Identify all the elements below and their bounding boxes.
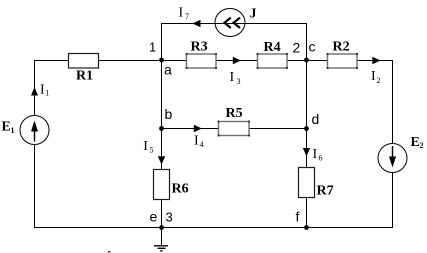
svg-text:R7: R7 (317, 184, 334, 199)
current arrow I3 (230, 57, 242, 86)
svg-text:I: I (143, 139, 148, 154)
current arrow I6 (303, 147, 323, 162)
resistor R2 (327, 40, 358, 69)
wire: vertical c-d-f (through R7) (306, 61, 308, 228)
svg-text:R5: R5 (226, 106, 243, 121)
wire: top branch a-J-c (162, 24, 307, 61)
svg-text:R1: R1 (76, 69, 93, 84)
node b junction (159, 106, 172, 131)
svg-text:1: 1 (149, 40, 156, 55)
resistor R7 (299, 168, 334, 199)
svg-text:d: d (312, 111, 320, 127)
current arrow I2 (371, 57, 381, 85)
svg-text:b: b (165, 106, 173, 122)
svg-text:e: e (150, 209, 158, 225)
svg-text:I: I (313, 147, 318, 162)
svg-text:I: I (230, 70, 235, 85)
svg-text:2: 2 (293, 40, 301, 56)
svg-text:2: 2 (420, 141, 424, 150)
svg-text:3: 3 (237, 77, 241, 86)
resistor R4 (257, 40, 288, 69)
svg-text:6: 6 (319, 153, 323, 162)
wire: right branch vertical (through E2) (392, 61, 394, 228)
svg-text:R2: R2 (333, 40, 350, 55)
current source J (215, 7, 257, 37)
wire: vertical a-b-e (through R6) (161, 61, 163, 228)
node 2/c junction (293, 39, 316, 63)
ground (154, 228, 168, 251)
node 3/e junction (150, 209, 173, 230)
wire: left branch vertical (through E1) (34, 61, 36, 228)
current arrow I7 (179, 6, 201, 28)
resistor R1 (69, 54, 99, 84)
svg-text:I: I (40, 83, 45, 98)
current source E2 (378, 135, 424, 173)
svg-text:3: 3 (166, 210, 173, 225)
wire: main horizontal bus from left corner through R1,R3,R4,R2 to right corner (34, 60, 393, 62)
svg-text:4: 4 (200, 140, 204, 149)
current source E1 (2, 116, 50, 145)
svg-text:R6: R6 (172, 182, 189, 197)
svg-text:f: f (296, 209, 300, 225)
wire: bottom bus e-f (34, 227, 393, 229)
svg-text:I: I (179, 6, 184, 21)
node d junction (304, 111, 319, 131)
svg-text:7: 7 (185, 12, 189, 21)
node f junction (296, 209, 309, 230)
resistor R5 (218, 106, 250, 136)
current arrow I1 (31, 83, 49, 98)
resistor R3 (186, 40, 217, 69)
svg-text:a: a (164, 62, 172, 78)
resistor R6 (154, 170, 189, 200)
svg-text:1: 1 (11, 126, 15, 135)
current arrow I4 (194, 125, 204, 149)
svg-text:R3: R3 (191, 40, 208, 55)
svg-text:c: c (309, 39, 316, 55)
svg-text:I: I (371, 69, 376, 84)
svg-text:R4: R4 (264, 40, 281, 55)
svg-text:I: I (194, 134, 199, 149)
svg-text:1: 1 (45, 89, 49, 98)
svg-text:E: E (411, 135, 420, 150)
svg-text:2: 2 (377, 76, 381, 85)
svg-text:J: J (250, 7, 257, 22)
node 1/a junction (149, 40, 172, 78)
wire: horizontal b-d (through R5) (162, 128, 307, 130)
svg-text:E: E (2, 120, 11, 135)
current arrow I5 (143, 139, 165, 165)
svg-text:5: 5 (150, 145, 154, 154)
